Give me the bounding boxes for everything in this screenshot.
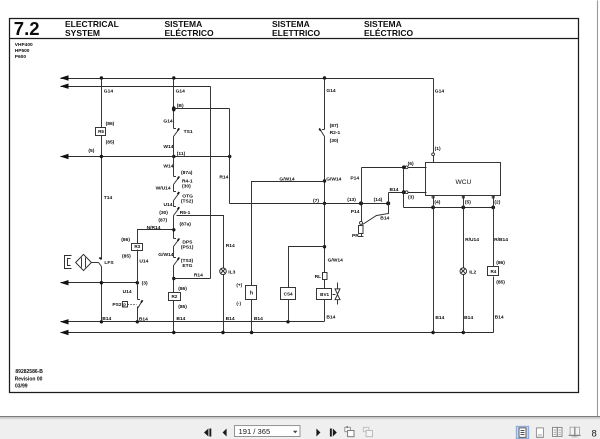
lamp IL3: [220, 268, 227, 275]
wire pin1 to box: [433, 156, 435, 164]
resistor RL: [323, 273, 328, 280]
pin (5): [462, 196, 464, 198]
node (5)-colA: [100, 155, 103, 158]
pin (2): [492, 196, 494, 198]
wire B14 diagonal: [363, 204, 389, 225]
wire colB R4-1-OTG: [173, 185, 175, 192]
switch CS4: [281, 288, 296, 300]
wire N/R14 branch: [138, 230, 174, 244]
wire bus2 drop x210: [210, 87, 212, 279]
switch R2-1: [322, 129, 325, 131]
node busA-colA: [100, 320, 103, 323]
ecu WCU: [426, 163, 501, 196]
node (14): [386, 201, 390, 205]
node bus1-colA: [100, 76, 103, 79]
node busB-IL2: [462, 331, 465, 334]
layout button continuous: [536, 428, 543, 437]
wire colP: [361, 168, 363, 222]
wire IL3 to busB: [223, 275, 225, 333]
wire pin3: [389, 192, 427, 194]
wire colB R2-busB: [173, 301, 175, 333]
node (7): [323, 202, 326, 205]
pin (6): [405, 166, 408, 169]
relay R5: [96, 128, 106, 136]
node (13): [359, 201, 363, 205]
node busA-CS4: [286, 320, 289, 323]
node pins-bus p5: [461, 206, 465, 210]
node busB-colB: [172, 331, 175, 334]
wire pin6: [362, 167, 427, 169]
wire LFS to switch: [92, 262, 99, 264]
button previous view: [345, 427, 351, 431]
wire h to busB: [251, 300, 253, 333]
wire busB: [61, 332, 494, 334]
toolbar background: [0, 416, 600, 439]
header separator line: [10, 38, 579, 40]
wire PR bottom: [361, 234, 363, 237]
valve symbol: [333, 294, 336, 296]
wire IL2 to busB: [463, 275, 465, 333]
node pin6: [402, 165, 406, 169]
wire R4 to busB end: [493, 277, 495, 333]
wire pin5 down: [463, 196, 465, 269]
wire pin3 corner: [388, 193, 390, 204]
wire (B) branch: [174, 108, 230, 110]
switch R4-1: [174, 176, 177, 178]
wire G14 top bus: [61, 78, 434, 80]
wire bottom pins bus: [404, 207, 494, 209]
node (3)-colR3: [136, 281, 139, 284]
node busA-colR3: [136, 320, 139, 323]
wire R14 drop: [229, 109, 231, 204]
node pins-bus p2: [491, 206, 495, 210]
button next page: [316, 429, 320, 437]
toolbar top shadow line: [0, 416, 600, 418]
pin (3): [405, 191, 408, 194]
relay R3: [132, 244, 143, 251]
svg-text:191 / 365: 191 / 365: [239, 427, 271, 436]
layout button facing continuous: [570, 427, 574, 435]
pressure box P: [123, 302, 128, 308]
node (11): [172, 155, 175, 158]
solenoid BV1: [317, 289, 332, 300]
wire (87a) branch: [177, 216, 224, 269]
wire G14 drop to (1): [433, 79, 435, 154]
fuse PR: [359, 226, 364, 234]
wire pin2 down: [493, 196, 495, 267]
wire RL-BV1: [324, 280, 326, 289]
wire R14 horizontal: [230, 203, 389, 205]
switch OTG TS2: [174, 191, 177, 193]
wire colR2-1 upper: [324, 79, 326, 130]
wire colB 87 down: [173, 216, 175, 239]
wire colA upper: [101, 79, 103, 128]
wire colB DPS-TS3: [173, 247, 175, 258]
node G/W14 junction: [323, 179, 326, 182]
node pin3: [402, 190, 406, 194]
wire second top bus: [61, 86, 211, 88]
node pins-bus p4: [431, 206, 435, 210]
switch PS2: [138, 299, 141, 301]
wire colB top: [173, 79, 175, 129]
layout button single page (active): [516, 426, 528, 438]
node busB-pin4: [431, 331, 434, 334]
layout button facing: [553, 427, 558, 436]
wire colA mid: [101, 136, 103, 260]
relay R2: [169, 293, 181, 301]
wire colR3 down: [137, 250, 139, 300]
wire bus (3): [61, 282, 138, 284]
wire colB TS3-R2: [173, 266, 175, 293]
wire colR3 to busA: [137, 307, 139, 322]
wire colB TS1-R4-1: [173, 137, 175, 177]
wire colB OTG-R5-1: [173, 201, 175, 207]
pin (1): [432, 153, 435, 156]
node busB-IL3: [221, 331, 224, 334]
dashed link PS2: [127, 303, 136, 305]
node bus1-colB: [172, 76, 175, 79]
svg-text:8: 8: [592, 429, 597, 439]
button previous-document: [204, 429, 208, 437]
switch TS1: [174, 128, 177, 130]
wire R14 branch to bus2col: [174, 278, 211, 280]
connector PR top: [360, 221, 363, 224]
node (3)-colA: [100, 281, 103, 284]
node CS4 branch: [323, 245, 326, 248]
button next view (disabled): [363, 427, 369, 431]
node (5)bus-R14col: [228, 155, 231, 158]
wire busA: [61, 321, 325, 323]
switch DPS PS1: [174, 238, 177, 240]
wire pin4 down: [433, 196, 435, 333]
node N/R14: [172, 228, 175, 231]
relay R4: [488, 267, 499, 276]
switch R5-1: [174, 206, 177, 208]
wire bus (5): [61, 156, 231, 158]
switch LFS blade: [99, 263, 102, 267]
button previous page: [223, 429, 227, 437]
node R14 branch: [172, 277, 175, 280]
wire x404 vertical: [403, 168, 405, 208]
lamp IL2: [460, 268, 467, 275]
page number field: [235, 426, 301, 437]
wire CS4 branch: [289, 247, 325, 288]
node bus1-colR2-1: [323, 76, 326, 79]
wire colR2-1 down: [324, 137, 326, 273]
window edge: [597, 1, 599, 417]
button next-document: [330, 429, 332, 437]
horn bracket LFS: [65, 256, 72, 269]
pin (4): [432, 196, 434, 198]
wire BV1 to busA: [324, 300, 326, 322]
wire CS4 to busA: [288, 300, 290, 322]
node busB-hmeter: [250, 331, 253, 334]
horn diamond LFS: [76, 254, 92, 270]
wire G/W14 branch: [252, 182, 325, 286]
wire colA lower: [101, 267, 103, 322]
node (B): [172, 106, 176, 111]
switch TS3 ETG: [174, 257, 177, 259]
meter h: [246, 286, 257, 300]
